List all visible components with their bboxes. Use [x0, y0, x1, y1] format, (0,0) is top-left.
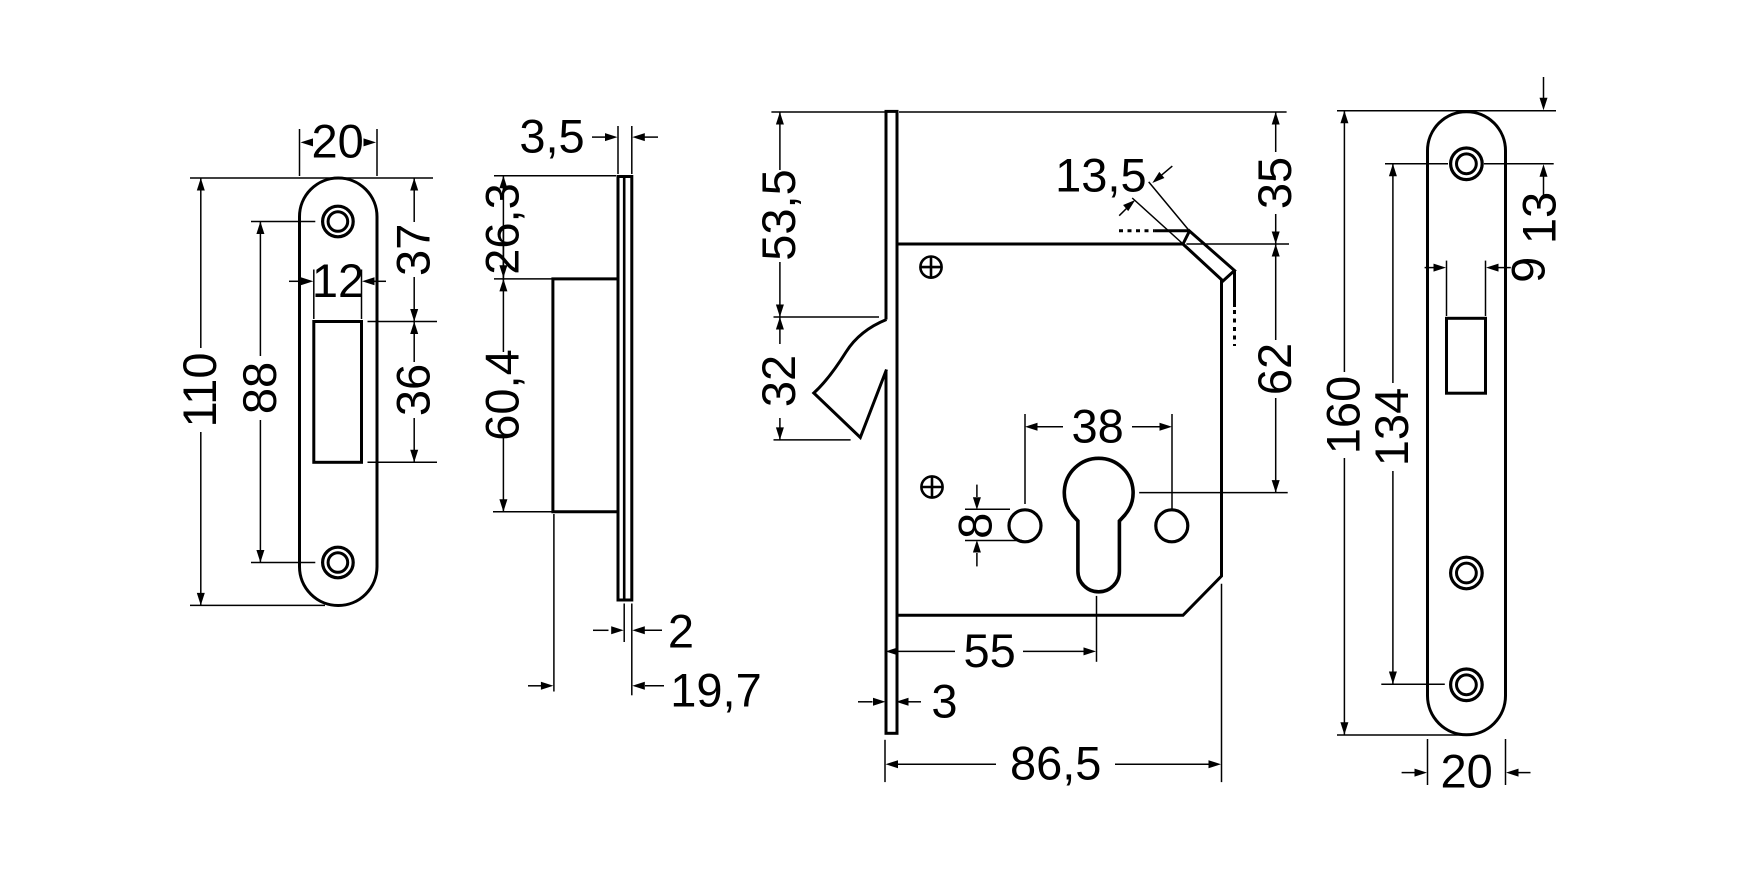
dimension 134 screw spacing: [1365, 164, 1445, 685]
dimension 55 backset: [886, 596, 1097, 677]
dimension 36 cutout height: [387, 322, 440, 463]
euro cylinder hole: [1064, 458, 1133, 592]
dimension 38 fixing hole spacing: [1025, 399, 1172, 510]
svg-text:8: 8: [948, 513, 1001, 539]
fixing hole left: [1009, 510, 1041, 542]
svg-text:13,5: 13,5: [1055, 148, 1146, 201]
lock body outline: [897, 244, 1222, 615]
faceplate side view outer plate: [618, 177, 632, 601]
svg-text:19,7: 19,7: [670, 663, 761, 716]
dimension 13,5 hook tip width: [1055, 148, 1189, 243]
extension line case top left: [494, 278, 552, 280]
svg-text:60,4: 60,4: [476, 349, 529, 440]
svg-text:134: 134: [1365, 388, 1418, 466]
dimension 26,3 plate top to case: [476, 176, 616, 280]
svg-text:9: 9: [1502, 257, 1555, 283]
long faceplate middle screw hole: [1451, 557, 1483, 589]
dimension 13 top to screw centre: [1512, 77, 1565, 244]
long faceplate top screw hole: [1451, 148, 1483, 180]
svg-text:35: 35: [1248, 157, 1301, 209]
svg-text:38: 38: [1071, 399, 1123, 452]
dimension 20 long faceplate width: [1402, 739, 1531, 797]
dimension 19,7 case depth: [528, 514, 762, 716]
svg-text:110: 110: [173, 353, 226, 428]
screw cross bottom: [921, 476, 942, 497]
dimension 9 cutout width: [1425, 257, 1555, 316]
dimension 2 outer plate thickness: [593, 604, 694, 658]
dimension 12 cutout width: [289, 254, 386, 319]
dimension 3 faceplate thickness: [858, 674, 957, 727]
extension line case bottom left: [493, 511, 552, 513]
hook bolt: [814, 320, 887, 438]
faceplate side view split line: [623, 177, 626, 601]
svg-text:26,3: 26,3: [476, 183, 529, 274]
svg-text:20: 20: [1440, 744, 1492, 797]
svg-text:62: 62: [1248, 343, 1301, 395]
long faceplate outline: [1428, 112, 1506, 735]
dimension 20 strike plate width: [300, 114, 378, 176]
svg-text:53,5: 53,5: [752, 169, 805, 260]
extension line long faceplate top: [1337, 110, 1556, 112]
svg-text:3: 3: [931, 674, 957, 727]
hook bolt tip extended position: [1119, 231, 1235, 346]
lock case side view box: [553, 279, 618, 512]
strike plate top screw hole: [323, 206, 354, 237]
svg-text:55: 55: [963, 624, 1015, 677]
dimension 86,5 total depth: [885, 584, 1222, 790]
dimension 35 plate top to body top: [899, 112, 1301, 244]
strike plate front view outline: [300, 178, 378, 606]
screw cross top: [920, 257, 941, 278]
dimension 3,5 total thickness: [519, 109, 658, 174]
svg-text:88: 88: [233, 362, 286, 414]
svg-text:86,5: 86,5: [1010, 737, 1101, 790]
svg-text:3,5: 3,5: [519, 109, 584, 162]
extension line screw centre: [1385, 163, 1554, 165]
strike plate latch cutout: [314, 322, 362, 463]
svg-text:36: 36: [387, 364, 440, 416]
strike plate bottom screw hole: [323, 547, 354, 578]
dimension 88 screw hole spacing: [233, 222, 315, 563]
dimension 62 body top to cylinder: [1139, 244, 1301, 493]
svg-text:13: 13: [1512, 192, 1565, 244]
fixing hole right: [1156, 510, 1188, 542]
long faceplate bolt cutout: [1447, 318, 1486, 393]
dimension 110 overall height: [173, 178, 433, 605]
dimension 8 fixing hole diameter: [948, 485, 1022, 567]
lock faceplate front edge: [885, 111, 899, 733]
dimension 160 long faceplate length: [1317, 111, 1463, 735]
dimension 60,4 case height: [476, 279, 529, 512]
svg-text:160: 160: [1317, 376, 1370, 454]
long faceplate bottom screw hole: [1451, 669, 1483, 701]
svg-text:37: 37: [387, 224, 440, 276]
svg-text:20: 20: [312, 114, 364, 167]
svg-text:2: 2: [668, 604, 694, 657]
dimension 53,5 plate top to hook: [752, 112, 886, 317]
extension line cutout top right: [368, 321, 438, 323]
svg-text:32: 32: [752, 355, 805, 407]
extension line cutout bottom right: [368, 461, 438, 463]
svg-text:12: 12: [312, 254, 364, 307]
dimension 37 top to cutout: [387, 178, 440, 322]
dimension 32 hook height: [752, 317, 850, 440]
